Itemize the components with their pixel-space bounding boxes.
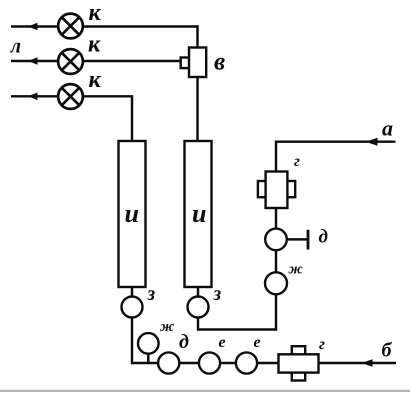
svg-text:и: и (125, 199, 139, 228)
wire row2 to в left tab (11, 60, 181, 62)
svg-text:б: б (382, 340, 393, 362)
wire row3 to left column (11, 96, 132, 141)
svg-text:ж: ж (160, 319, 174, 335)
wire б line from г block (319, 362, 397, 364)
arrow row1 (28, 23, 38, 31)
svg-text:з: з (213, 284, 222, 305)
svg-text:а: а (382, 116, 393, 141)
circle з left (122, 297, 143, 318)
lamp К1 crossed circle (58, 14, 83, 39)
svg-text:к: к (89, 0, 102, 26)
column И right (185, 141, 212, 287)
wire ж stem bottom (147, 354, 149, 364)
block г right (vertical) (258, 172, 295, 209)
circle д bottom (158, 352, 179, 373)
wire left column stem to з (131, 287, 133, 297)
wire д stub (287, 238, 309, 240)
svg-text:и: и (192, 199, 206, 228)
svg-text:л: л (10, 36, 21, 58)
block в (181, 48, 207, 78)
svg-text:к: к (89, 67, 102, 93)
wire в to right column (196, 77, 198, 141)
д stub end bar (307, 230, 310, 250)
svg-text:к: к (88, 32, 101, 58)
arrow row2 (28, 57, 38, 65)
svg-text:г: г (294, 153, 300, 170)
circle ж right (265, 272, 287, 294)
wire row1 to valve-block в (11, 27, 198, 48)
wire д to ж circle (275, 250, 277, 273)
circle з right (188, 297, 209, 318)
svg-text:д: д (319, 227, 328, 248)
svg-text:д: д (179, 331, 189, 353)
wire right column stem to з (197, 287, 199, 297)
svg-text:в: в (214, 49, 225, 76)
svg-text:ж: ж (289, 262, 303, 278)
lamp К2 crossed circle (58, 49, 83, 74)
circle е2 bottom (236, 352, 257, 373)
arrow а (366, 138, 378, 146)
lamp К3 crossed circle (58, 84, 83, 109)
svg-text:е: е (219, 334, 226, 351)
svg-text:з: з (147, 284, 156, 305)
wire ж down left up to з (198, 294, 276, 330)
svg-text:е: е (254, 334, 261, 351)
wire left з down to bottom row (132, 317, 279, 363)
page separator line (0, 390, 410, 392)
arrow row3 (28, 93, 38, 101)
circle е1 bottom (199, 352, 220, 373)
block г bottom (horizontal) (279, 346, 319, 380)
column И left (119, 141, 146, 287)
circle д right (265, 229, 287, 251)
wire г to д circle (275, 208, 277, 229)
wire а line into г (276, 142, 396, 172)
circle ж left (138, 333, 159, 354)
svg-text:г: г (319, 336, 325, 353)
arrow б (362, 359, 373, 367)
